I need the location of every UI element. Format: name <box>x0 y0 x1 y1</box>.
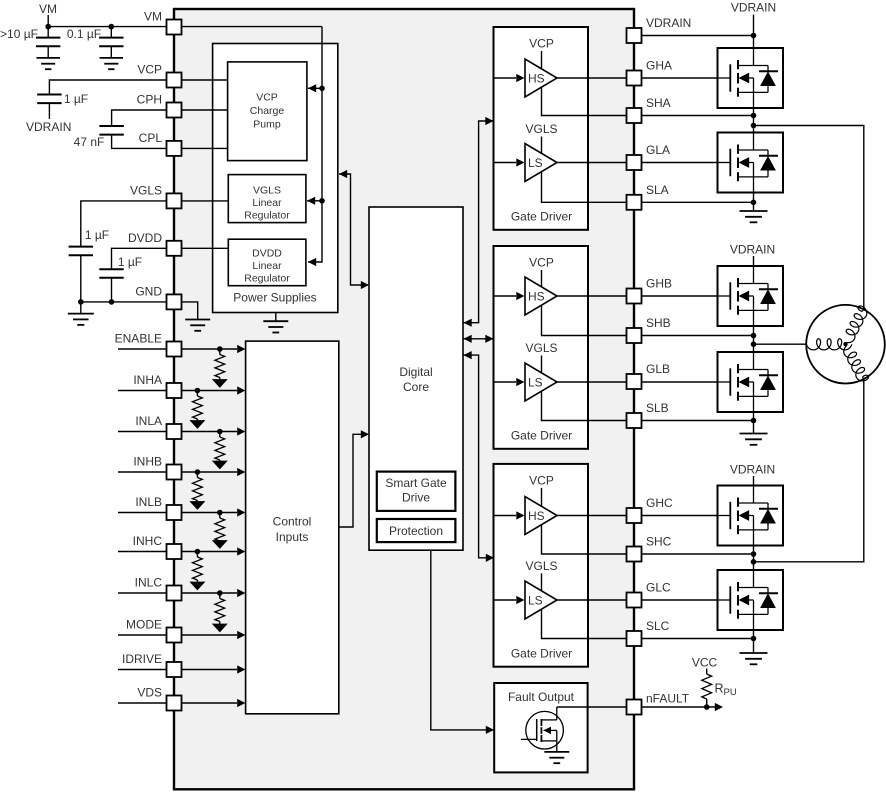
arrow into Gate Driver B <box>485 335 493 343</box>
wire Digital Core to Gate Driver B <box>464 338 493 340</box>
block VCP Charge Pump <box>228 62 307 161</box>
wire VDRAIN pin to node <box>642 35 754 37</box>
wire C6 to GND rail <box>111 278 113 302</box>
transistor Q6 (low-side C) (power MOSFET with body diode) <box>718 570 784 630</box>
ground internal at GND pin <box>185 320 210 331</box>
capacitor C5 (1 uF VGLS) <box>69 247 93 256</box>
node INLA pulldown tap <box>217 429 223 435</box>
wire INHC external stub <box>118 551 167 553</box>
node nFAULT pullup junction <box>704 704 710 710</box>
arrow INHB pulldown (to internal gnd) <box>189 501 205 510</box>
wire Digital Core to Fault Output <box>431 550 493 730</box>
wire tap to VCP charge pump <box>308 87 322 89</box>
arrow INHA into Control Inputs <box>237 386 245 394</box>
arrow into HS buffer A <box>516 74 524 82</box>
wire tap to VGLS regulator <box>307 200 322 202</box>
svg-text:Digital: Digital <box>399 365 432 379</box>
svg-text:1 µF: 1 µF <box>118 255 142 269</box>
wire INHC pulldown lead 2 <box>196 580 198 582</box>
svg-text:SLC: SLC <box>646 619 670 633</box>
wire VCP pin to charge pump <box>182 79 228 81</box>
wire phase C to motor <box>754 379 864 562</box>
buffer LS gate driver C <box>525 581 557 619</box>
resistor INLA pulldown <box>215 437 225 460</box>
pin GLC <box>627 593 642 608</box>
wire INHB to Control Inputs <box>182 471 238 473</box>
resistor ENABLE pulldown <box>215 355 225 378</box>
capacitor C2 (0.1 uF) <box>99 38 123 47</box>
wire VM label to rail <box>47 15 49 27</box>
wire into LS buffer B <box>494 381 517 383</box>
pin INHA <box>167 383 182 398</box>
wire Q1 source to Q2 drain <box>753 108 755 133</box>
pin INLA <box>167 424 182 439</box>
wire MODE external stub <box>118 634 167 636</box>
wire CPH to C4 <box>112 110 167 126</box>
arrow into Digital Core from Control Inputs <box>361 430 369 438</box>
arrow INLB pulldown (to internal gnd) <box>212 540 228 549</box>
wire VM internal vertical feed <box>308 27 322 262</box>
pin GHC <box>627 508 642 523</box>
arrow into Fault Output <box>486 726 494 734</box>
wire INLC pulldown lead <box>219 593 221 599</box>
buffer HS gate driver A <box>525 59 557 97</box>
svg-text:VM: VM <box>144 10 162 24</box>
winding phase C (lower right) <box>844 346 869 381</box>
pin VDRAIN <box>627 28 642 43</box>
wire VCP to C3 <box>49 80 166 95</box>
arrow INHB into Control Inputs <box>237 468 245 476</box>
wire VGLS pin to regulator <box>182 200 229 202</box>
pin SHC <box>627 547 642 562</box>
wire INHA to Control Inputs <box>182 390 238 392</box>
block Smart Gate Drive <box>377 472 456 511</box>
wire RPU to nFAULT node <box>706 699 708 707</box>
wire into HS buffer C <box>494 515 517 517</box>
arrow into Digital Core from Power Supplies <box>361 281 369 289</box>
pin SLB <box>627 413 642 428</box>
svg-text:VGLS: VGLS <box>253 184 281 196</box>
wire Q3 source to Q4 drain <box>753 326 755 352</box>
block Protection <box>377 519 456 542</box>
pin VDS <box>167 696 182 711</box>
wire INHC pulldown lead <box>196 552 198 558</box>
wire Q5 source to Q6 drain <box>753 546 755 571</box>
svg-text:Gate Driver: Gate Driver <box>511 429 572 443</box>
svg-text:Smart Gate: Smart Gate <box>385 476 447 490</box>
node ENABLE pulldown tap <box>217 346 223 352</box>
pin SHA <box>627 108 642 123</box>
arrow ENABLE pulldown (to internal gnd) <box>212 379 228 388</box>
svg-text:Regulator: Regulator <box>244 209 290 221</box>
pin SHB <box>627 328 642 343</box>
arrow INLA into Control Inputs <box>237 427 245 435</box>
transistor Q1 (high-side A) (power MOSFET with body diode) <box>718 48 784 108</box>
wire VDRAIN down to HS FET B <box>753 256 755 266</box>
wire Digital Core to Gate Driver A <box>463 121 493 323</box>
svg-text:Linear: Linear <box>252 197 282 209</box>
svg-text:1 µF: 1 µF <box>85 228 109 242</box>
wire HS source sense to SHC pin <box>542 525 627 554</box>
wire C2 bottom lead <box>110 46 112 58</box>
svg-text:IDRIVE: IDRIVE <box>122 652 162 666</box>
wire SLA pin to node <box>642 201 754 203</box>
resistor INHC pulldown <box>193 557 203 580</box>
wire SLB pin to node <box>642 420 754 422</box>
wire INLC to Control Inputs <box>182 592 238 594</box>
wire VGLS to LS buffer C <box>541 573 543 590</box>
wire Power Supplies to ground <box>275 313 277 322</box>
node GND junction 2 <box>109 299 115 305</box>
block Power Supplies <box>213 44 338 313</box>
svg-text:VDRAIN: VDRAIN <box>731 1 776 15</box>
node VDRAIN pin junction <box>751 33 757 39</box>
block VGLS Linear Regulator <box>228 175 306 223</box>
wire CPH pin to charge pump <box>182 109 228 111</box>
wire C3 to VDRAIN net <box>48 103 50 119</box>
arrow into LS buffer B <box>516 378 524 386</box>
arrow INHA pulldown (to internal gnd) <box>189 420 205 429</box>
svg-text:VCP: VCP <box>529 37 554 51</box>
wire GLB pin to Q4 gate <box>642 381 718 383</box>
capacitor C4 (47 nF flying) <box>99 126 123 135</box>
wire INLA to Control Inputs <box>182 431 238 433</box>
wire GLC pin to Q6 gate <box>642 599 718 601</box>
wire LS output to GLA pin <box>557 162 627 164</box>
buffer HS gate driver B <box>525 277 557 315</box>
block Gate Driver C <box>494 464 589 667</box>
arrow into Power Supplies <box>339 170 347 178</box>
wire VCP to HS buffer B <box>541 270 543 287</box>
arrow VDS into Control Inputs <box>237 699 245 707</box>
pin nFAULT <box>627 700 642 715</box>
wire Q2 source to ground <box>753 193 755 212</box>
transistor Q4 (low-side B) (power MOSFET with body diode) <box>718 352 784 412</box>
svg-text:VDRAIN: VDRAIN <box>730 243 775 257</box>
wire LS output to GLC pin <box>557 599 627 601</box>
svg-text:CPL: CPL <box>139 131 163 145</box>
wire ENABLE external stub <box>118 348 167 350</box>
winding phase B (left) <box>806 339 852 350</box>
svg-text:HS: HS <box>528 509 545 523</box>
svg-text:GHB: GHB <box>646 277 672 291</box>
wire HS output to GHA pin <box>557 77 627 79</box>
arrow into Gate Driver A <box>485 117 493 125</box>
svg-text:Linear: Linear <box>252 260 282 272</box>
arrow into VCP charge pump <box>308 84 316 92</box>
svg-text:GLC: GLC <box>646 581 671 595</box>
wire GND rail external <box>81 301 167 303</box>
svg-text:VCP: VCP <box>529 473 554 487</box>
svg-text:Pump: Pump <box>253 118 281 130</box>
svg-text:SLA: SLA <box>646 183 669 197</box>
svg-text:nFAULT: nFAULT <box>646 692 690 706</box>
resistor INLC pulldown <box>215 599 225 622</box>
svg-text:Power Supplies: Power Supplies <box>233 291 316 305</box>
wire into HS buffer B <box>494 295 517 297</box>
wire C1 bottom lead <box>47 46 49 58</box>
pin CPL <box>167 141 182 156</box>
pin INHC <box>167 544 182 559</box>
arrow INLB into Control Inputs <box>237 508 245 516</box>
wire LS source sense to SLC pin <box>542 609 627 638</box>
svg-text:INHC: INHC <box>133 534 163 548</box>
resistor INHB pulldown <box>193 478 203 501</box>
svg-text:Gate Driver: Gate Driver <box>511 210 572 224</box>
wire ENABLE to Control Inputs <box>182 348 238 350</box>
wire SHB pin to node <box>642 335 754 337</box>
arrow nFAULT signal out <box>715 703 723 711</box>
svg-text:ENABLE: ENABLE <box>115 332 162 346</box>
svg-text:Control: Control <box>273 514 312 528</box>
pin VCP <box>167 73 182 88</box>
ground for GND rail <box>68 314 94 325</box>
block Gate Driver A <box>494 27 589 230</box>
svg-text:LS: LS <box>528 156 543 170</box>
wire VCC to RPU <box>706 669 708 675</box>
node SLB junction <box>751 418 757 424</box>
svg-text:LS: LS <box>528 593 543 607</box>
node phase C tap <box>751 559 757 565</box>
arrow ENABLE into Control Inputs <box>237 345 245 353</box>
ground below Power Supplies <box>263 321 288 332</box>
wire CPL pin to charge pump <box>182 147 228 149</box>
wire INHC to Control Inputs <box>182 551 238 553</box>
wire GHB pin to Q3 gate <box>642 295 718 297</box>
wire VDRAIN down to HS FET A <box>753 15 755 49</box>
pin GND <box>167 294 182 309</box>
wire INLB pulldown lead 2 <box>219 539 221 542</box>
svg-text:CPH: CPH <box>137 93 162 107</box>
arrow into LS buffer A <box>516 158 524 166</box>
wire into LS buffer C <box>494 599 517 601</box>
arrow into DVDD regulator <box>308 258 316 266</box>
wire INLB external stub <box>118 512 167 514</box>
wire IDRIVE to Control Inputs <box>182 669 238 671</box>
block Digital Core <box>369 207 463 550</box>
wire fault FET drain to nFAULT pin <box>557 706 627 708</box>
pin CPH <box>167 103 182 118</box>
capacitor C3 (1 uF VCP-VDRAIN) <box>37 95 61 104</box>
wire INHA external stub <box>118 390 167 392</box>
ground phase C low side <box>740 653 768 664</box>
wire VGLS to LS buffer A <box>541 137 543 154</box>
wire VM internal feed <box>182 26 323 28</box>
node VM feed tap VCP <box>319 86 325 92</box>
transistor Q2 (low-side A) (power MOSFET with body diode) <box>718 133 784 193</box>
svg-text:VCP: VCP <box>137 63 162 77</box>
svg-text:Gate Driver: Gate Driver <box>511 646 572 660</box>
svg-text:Charge: Charge <box>250 105 285 117</box>
svg-text:Protection: Protection <box>389 524 443 538</box>
wire VDS to Control Inputs <box>182 702 238 704</box>
arrow into Digital Core from GD B <box>464 335 472 343</box>
arrow into Digital Core from GD A bus <box>464 319 472 327</box>
arrow INLC pulldown (to internal gnd) <box>212 624 228 633</box>
svg-text:GHC: GHC <box>646 496 673 510</box>
svg-text:SHA: SHA <box>646 96 671 110</box>
node SHB junction <box>751 333 757 339</box>
transistor open-drain fault FET <box>521 707 564 752</box>
svg-text:INLC: INLC <box>135 576 163 590</box>
wire INLA pulldown lead <box>219 432 221 438</box>
wire INLC external stub <box>118 592 167 594</box>
transistor Q5 (high-side C) (power MOSFET with body diode) <box>718 486 784 546</box>
arrow INHC into Control Inputs <box>237 547 245 555</box>
wire LS output to GLB pin <box>557 381 627 383</box>
svg-text:DVDD: DVDD <box>252 248 282 260</box>
wire VDS external stub <box>118 702 167 704</box>
wire phase A to motor <box>754 126 864 310</box>
wire GHC pin to Q5 gate <box>642 515 718 517</box>
wire VGLS to C5 <box>81 201 167 247</box>
svg-text:MODE: MODE <box>126 618 162 632</box>
svg-text:VDRAIN: VDRAIN <box>646 16 691 30</box>
svg-text:Core: Core <box>403 380 429 394</box>
wire INLA pulldown lead 2 <box>219 459 221 462</box>
wire INHA pulldown lead 2 <box>196 419 198 420</box>
node SHC junction <box>751 551 757 557</box>
pin GHB <box>627 289 642 304</box>
node VM junction 1 <box>45 24 51 30</box>
wire GHA pin to Q1 gate <box>642 77 718 79</box>
svg-text:SLB: SLB <box>646 401 669 415</box>
pin SLA <box>627 195 642 210</box>
wire ENABLE pulldown lead <box>219 349 221 355</box>
svg-text:GLB: GLB <box>646 362 670 376</box>
svg-text:VM: VM <box>39 2 57 16</box>
wire VCP to HS buffer C <box>541 488 543 506</box>
svg-text:HS: HS <box>528 289 545 303</box>
svg-text:GLA: GLA <box>646 143 670 157</box>
wire C2 top lead <box>110 27 112 38</box>
wire VDRAIN down to HS FET C <box>753 476 755 486</box>
node INLC pulldown tap <box>217 590 223 596</box>
arrow into HS buffer C <box>516 511 524 519</box>
svg-text:>10 µF: >10 µF <box>0 27 38 41</box>
wire into HS buffer A <box>494 77 517 79</box>
pin INLC <box>167 586 182 601</box>
svg-text:47 nF: 47 nF <box>74 135 105 149</box>
node phase B tap <box>751 341 757 347</box>
svg-text:VCC: VCC <box>692 656 718 670</box>
pin IDRIVE <box>167 662 182 677</box>
svg-text:HS: HS <box>528 71 545 85</box>
wire ENABLE pulldown lead 2 <box>219 378 221 380</box>
svg-text:SHB: SHB <box>646 316 671 330</box>
wire IDRIVE external stub <box>118 669 167 671</box>
wire INLC pulldown lead 2 <box>219 622 221 624</box>
svg-text:VGLS: VGLS <box>525 559 557 573</box>
arrow into VGLS regulator <box>307 197 315 205</box>
IC boundary (gate driver device) <box>174 9 634 789</box>
pin VGLS <box>167 193 182 208</box>
wire C5 to GND rail <box>80 255 82 302</box>
pin GLA <box>627 155 642 170</box>
winding phase A (upper right) <box>846 306 867 343</box>
wire into LS buffer A <box>494 162 517 164</box>
pin ENABLE <box>167 342 182 357</box>
wire HS source sense to SHB pin <box>542 305 627 335</box>
wire VGLS to LS buffer B <box>541 356 543 373</box>
wire phase B to motor <box>754 343 807 345</box>
ground below C2 <box>100 58 124 69</box>
pin GHA <box>627 71 642 86</box>
node GND junction 1 <box>78 299 84 305</box>
wire HS output to GHB pin <box>557 295 627 297</box>
wire C1 top lead <box>47 27 49 38</box>
svg-text:1 µF: 1 µF <box>64 92 88 106</box>
ground below C1 <box>36 58 60 69</box>
wire GND rail to ground <box>80 302 82 314</box>
arrow IDRIVE into Control Inputs <box>237 665 245 673</box>
node INLB pulldown tap <box>217 510 223 516</box>
transistor Q3 (high-side B) (power MOSFET with body diode) <box>718 266 784 326</box>
wire VM rail <box>48 26 166 28</box>
ground phase A low side <box>740 211 768 222</box>
arrow into Gate Driver C <box>486 554 494 562</box>
svg-text:VGLS: VGLS <box>525 122 557 136</box>
svg-text:VGLS: VGLS <box>130 184 162 198</box>
buffer HS gate driver C <box>525 497 557 535</box>
pin MODE <box>167 628 182 643</box>
svg-text:INLA: INLA <box>135 414 162 428</box>
arrow INHC pulldown (to internal gnd) <box>189 582 205 591</box>
svg-text:VCP: VCP <box>529 256 554 270</box>
wire DVDD pin to regulator <box>182 247 229 249</box>
arrow MODE into Control Inputs <box>237 631 245 639</box>
resistor RPU pullup <box>702 674 712 699</box>
buffer LS gate driver B <box>525 363 557 401</box>
svg-text:INLB: INLB <box>135 495 162 509</box>
svg-text:VCP: VCP <box>256 91 278 103</box>
pin DVDD <box>167 241 182 256</box>
node SLA junction <box>751 200 757 206</box>
buffer LS gate driver A <box>525 144 557 182</box>
resistor INHA pulldown <box>193 396 203 419</box>
pin VM <box>167 20 182 35</box>
wire SLC pin to node <box>642 638 754 640</box>
pin INLB <box>167 505 182 520</box>
node INHC pulldown tap <box>195 549 201 555</box>
wire nFAULT pin output <box>642 706 717 708</box>
svg-text:Fault Output: Fault Output <box>508 690 575 704</box>
svg-text:Regulator: Regulator <box>244 273 290 285</box>
wire INHA pulldown lead <box>196 391 198 397</box>
block Control Inputs <box>246 341 339 714</box>
wire LS source sense to SLA pin <box>542 172 627 203</box>
svg-text:DVDD: DVDD <box>128 231 162 245</box>
wire Q4 source to ground <box>753 412 755 434</box>
arrow INLA pulldown (to internal gnd) <box>212 461 228 470</box>
wire DVDD to C6 <box>112 248 167 269</box>
node SHA junction <box>751 113 757 119</box>
arrow into Digital Core from GD C bus <box>464 351 472 359</box>
svg-text:GND: GND <box>135 285 162 299</box>
pin INHB <box>167 465 182 480</box>
capacitor C6 (1 uF DVDD) <box>99 269 123 278</box>
wire GLA pin to Q2 gate <box>642 162 718 164</box>
wire SHC pin to node <box>642 553 754 555</box>
node phase A tap <box>751 123 757 129</box>
wire HS source sense to SHA pin <box>542 87 627 115</box>
wire HS output to GHC pin <box>557 515 627 517</box>
arrow INLC into Control Inputs <box>237 589 245 597</box>
wire INHB pulldown lead <box>196 472 198 478</box>
wire INLB to Control Inputs <box>182 512 238 514</box>
node SLC junction <box>751 636 757 642</box>
block DVDD Linear Regulator <box>228 239 306 286</box>
